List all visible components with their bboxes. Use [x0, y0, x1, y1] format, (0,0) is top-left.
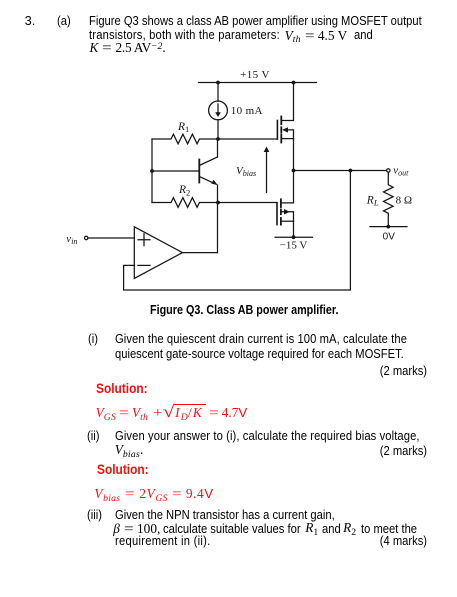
resistor R1 — [152, 134, 218, 144]
svg-text:R1: R1 — [177, 121, 189, 134]
resistor RL — [384, 173, 394, 227]
svg-text:+15 V: +15 V — [240, 69, 270, 81]
8 ohm value label — [396, 195, 412, 207]
svg-text:RL: RL — [366, 195, 379, 208]
junction dot 0V rail — [386, 225, 390, 229]
node A junction dot — [216, 137, 220, 141]
solution (ii) math — [94, 487, 213, 500]
vout terminal — [387, 169, 390, 172]
+15 V label — [240, 69, 270, 81]
op-amp U1 — [134, 227, 182, 279]
Vbias. line — [115, 443, 144, 456]
current source I1 10 mA — [209, 101, 228, 120]
wire rail to current source — [217, 83, 219, 102]
question number — [25, 14, 36, 27]
transistor Q3 NPN — [199, 157, 217, 185]
wire Q3 emitter to node B — [217, 185, 219, 203]
question (ii) — [87, 429, 101, 442]
junction dot -15V rail — [292, 235, 296, 239]
question (iii) — [87, 508, 104, 521]
RL label — [366, 195, 379, 208]
solution (i) math — [96, 406, 248, 419]
paragraph (a) line 2 — [89, 28, 307, 41]
svg-text:10 mA: 10 mA — [231, 105, 263, 117]
wire base node to Q3 base — [152, 170, 199, 172]
question (i) — [88, 332, 99, 345]
vin label — [66, 233, 77, 246]
svg-text:Vbias: Vbias — [236, 165, 256, 178]
svg-text:8 Ω: 8 Ω — [396, 195, 412, 207]
0V rail — [370, 226, 407, 228]
(iii) line 3 — [115, 534, 224, 547]
svg-text:R2: R2 — [178, 184, 190, 197]
wire Q3 collector to node A — [217, 139, 219, 157]
wire node A to Q1 gate — [218, 138, 277, 140]
R1 label — [177, 121, 189, 134]
(iii) line 2 — [113, 522, 160, 535]
svg-text:vout: vout — [393, 164, 409, 177]
-15V supply rail — [275, 236, 313, 238]
wire current source to node A — [217, 120, 219, 139]
wire node B to Q2 gate — [218, 202, 277, 204]
wire op-amp output up to node B — [217, 203, 219, 253]
paragraph (a) line 1 — [89, 14, 457, 27]
output wire — [294, 170, 387, 172]
junction dot rail/current source — [216, 81, 220, 85]
left vertical wire R1 to R2 — [151, 139, 153, 203]
-15 V label — [280, 240, 308, 252]
vout label — [393, 164, 409, 177]
vin terminal — [85, 236, 88, 239]
output node junction dot — [292, 169, 296, 173]
MOSFET Q1 (NMOS) — [277, 83, 293, 143]
junction dot rail/Q1 drain — [292, 81, 296, 85]
0V label — [383, 232, 396, 243]
10 mA value label — [231, 105, 263, 117]
+15 V supply rail — [199, 82, 317, 84]
resistor R2 — [152, 198, 218, 208]
figure caption — [150, 303, 374, 316]
base node junction dot — [150, 169, 154, 173]
vin wire — [88, 237, 134, 239]
node B junction dot — [216, 201, 220, 205]
op-amp output wire — [183, 252, 218, 254]
paragraph (a) line 3 — [90, 41, 166, 54]
feedback tap junction dot — [349, 169, 353, 173]
svg-text:−15 V: −15 V — [280, 240, 308, 252]
R2 label — [178, 184, 190, 197]
Vbias label — [236, 165, 256, 178]
wire Q2 source to -15V rail — [293, 221, 295, 237]
Vbias annotation arrow — [264, 147, 270, 193]
MOSFET Q2 (PMOS) — [277, 171, 294, 225]
svg-text:vin: vin — [66, 233, 77, 246]
feedback wire — [124, 171, 351, 291]
svg-text:0V: 0V — [383, 232, 396, 243]
wire Q1 source to output node — [293, 139, 295, 171]
